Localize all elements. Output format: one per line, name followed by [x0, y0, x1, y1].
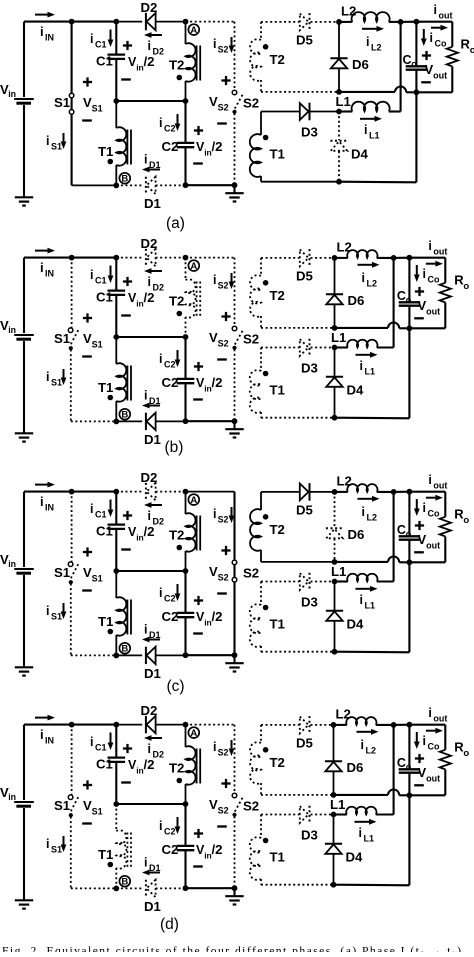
polarity dot T1 secondary [263, 838, 269, 844]
svg-text:L2: L2 [367, 279, 378, 289]
svg-text:i: i [213, 37, 216, 51]
polarity dot T2 secondary [263, 280, 269, 286]
inductor L2 [335, 257, 348, 259]
svg-text:i: i [144, 623, 147, 637]
svg-text:D2: D2 [153, 283, 165, 293]
wire top rail node A to S2 branch [186, 21, 235, 23]
svg-text:L2: L2 [371, 43, 382, 53]
svg-text:in: in [8, 792, 16, 802]
voltage source Vin (a) [23, 22, 25, 97]
wire bottom rail S1 to node B [71, 420, 117, 422]
circuit phase (a) [0, 0, 474, 232]
svg-text:o: o [406, 529, 412, 539]
node junction bottom B [113, 419, 119, 425]
wire top rail S1 node to C1 node [72, 257, 117, 259]
svg-text:D1: D1 [144, 196, 161, 211]
svg-text:S1: S1 [51, 378, 62, 388]
transformer T2 secondary winding [260, 22, 262, 40]
polarity dot T2 primary [177, 778, 183, 784]
wire D1 to C2 bottom [156, 184, 186, 186]
node junction Co top [414, 19, 420, 25]
svg-text:Fig. 2. Equivalent circuits: Fig. 2. Equivalent circuits of the four … [2, 945, 461, 953]
current arrow iCo [416, 732, 418, 742]
current arrow iL1 [355, 821, 370, 823]
inductor L2 [334, 724, 347, 726]
transformer T2 secondary winding [260, 492, 262, 510]
capacitor C1 [115, 22, 117, 54]
wire bottom rail S1 to node B [71, 887, 117, 889]
svg-text:T2: T2 [169, 58, 184, 73]
wire lower loop bottom rail [261, 884, 334, 886]
capacitor C2 [184, 101, 186, 142]
current arrow iL1 [360, 118, 375, 120]
diode D5 [300, 14, 309, 31]
svg-text:i: i [213, 273, 216, 287]
current arrow iCo [423, 29, 425, 39]
svg-text:i: i [428, 473, 431, 487]
svg-text:D2: D2 [141, 703, 158, 718]
diode D3 [300, 339, 309, 356]
diode D3 [300, 806, 309, 823]
wire top rail S1 node to C1 node [72, 21, 117, 23]
svg-text:C1: C1 [95, 510, 107, 520]
ground (left circuit) [233, 421, 235, 429]
ground (input) [15, 196, 33, 198]
diode D2 [145, 716, 147, 733]
wire D6 bottom to output ground with crossover hop [339, 91, 395, 93]
svg-text:D4: D4 [347, 383, 365, 398]
ground (left circuit) [233, 185, 235, 193]
node junction L1 input [331, 812, 337, 818]
capacitor Co [408, 258, 410, 302]
svg-text:C1: C1 [96, 524, 113, 539]
svg-text:i: i [366, 35, 369, 49]
circuit phase (d) [0, 703, 469, 933]
transformer T1 primary winding [115, 337, 117, 364]
transformer T1 secondary winding [260, 112, 262, 136]
current arrow iCo [416, 265, 418, 275]
wire bottom rail S1 to node B [71, 654, 117, 656]
inductor L1 [335, 346, 348, 348]
node junction top S1 [69, 19, 75, 25]
node junction top T2 [183, 722, 189, 728]
wire L2 to output top node [391, 255, 397, 261]
node junction D4 bottom [331, 882, 337, 888]
node junction bottom B [113, 183, 119, 189]
node junction D4 bottom [332, 649, 338, 655]
svg-text:C2: C2 [164, 827, 176, 837]
svg-text:o: o [463, 748, 469, 759]
wire L2 to output top node [391, 722, 397, 728]
svg-text:/2: /2 [212, 842, 223, 857]
svg-text:S1: S1 [92, 574, 103, 584]
wire output top to Ro [416, 21, 452, 23]
svg-text:T2: T2 [270, 755, 285, 770]
svg-text:C1: C1 [95, 276, 107, 286]
node A [188, 727, 199, 738]
diode D2 [145, 249, 147, 266]
wire mid rail [113, 334, 119, 340]
svg-text:T2: T2 [169, 528, 184, 543]
polarity dot T2 primary [177, 545, 183, 551]
svg-text:D2: D2 [153, 47, 165, 57]
svg-text:T1: T1 [98, 380, 113, 395]
capacitor Co [415, 22, 417, 66]
node junction L2 input [332, 255, 338, 261]
svg-text:out: out [439, 11, 453, 21]
capacitor C2 [184, 804, 186, 845]
current arrow iD2 [152, 737, 163, 739]
diode D6 [338, 22, 340, 58]
svg-text:D2: D2 [141, 236, 158, 251]
svg-text:i: i [213, 507, 216, 521]
node junction Co bottom [407, 325, 413, 331]
wire lower loop to output ground [335, 417, 410, 420]
current arrow iL1 [356, 354, 371, 356]
node junction D6 bottom [332, 325, 338, 331]
inductor L1 [335, 580, 348, 582]
svg-text:D1: D1 [144, 666, 161, 681]
voltage label Vin/2 on C2 [194, 832, 203, 834]
wire T2 secondary to D5 [261, 21, 300, 23]
svg-text:/2: /2 [212, 609, 223, 624]
node junction D6 bottom [336, 89, 342, 95]
vertical wire L1 to top rail [400, 22, 402, 112]
wire T1 secondary to D3 [261, 581, 300, 583]
wire top rail Vin to S1 node [24, 724, 72, 726]
svg-text:C1: C1 [95, 743, 107, 753]
svg-text:out: out [433, 481, 447, 491]
node junction top S1 [69, 722, 75, 728]
node junction L1 input [332, 345, 338, 351]
vertical wire output ground to lower loop [415, 92, 417, 182]
node junction top C1 [113, 19, 119, 25]
wire D3 to L1 node [311, 581, 335, 583]
wire bottom rail S1 to node B [72, 184, 117, 186]
wire bottom rail C2 to ground node [186, 420, 235, 422]
svg-text:S1: S1 [54, 331, 70, 346]
wire output bottom to Ro [409, 561, 445, 563]
svg-text:S2: S2 [218, 573, 229, 583]
voltage label VS2 with polarity [221, 315, 230, 317]
svg-text:Co: Co [428, 275, 440, 285]
diode D3 [300, 573, 309, 590]
capacitor C1 [115, 258, 117, 290]
svg-text:o: o [463, 281, 469, 292]
svg-text:L1: L1 [336, 94, 351, 109]
voltage label Vout with polarity [415, 290, 424, 292]
svg-text:S2: S2 [218, 339, 229, 349]
wire mid rail [113, 801, 119, 807]
svg-text:IN: IN [45, 503, 54, 513]
svg-text:C: C [397, 289, 406, 303]
node junction top T2 [183, 489, 189, 495]
resistor Ro [444, 492, 446, 517]
svg-text:i: i [148, 742, 151, 756]
svg-text:A: A [190, 25, 197, 36]
diode D5 [300, 717, 309, 734]
vertical wire output ground to lower loop [408, 795, 410, 885]
wire node B to D1 [116, 654, 142, 656]
svg-text:out: out [433, 71, 447, 81]
switch S1 (open) [71, 492, 73, 562]
svg-text:out: out [433, 247, 447, 257]
transformer T1 core [126, 600, 128, 635]
transformer T1 primary winding [115, 571, 117, 598]
svg-text:o: o [411, 59, 417, 69]
transformer T1 primary winding [115, 101, 117, 128]
svg-text:S1: S1 [92, 340, 103, 350]
voltage label Vout with polarity [415, 757, 424, 759]
svg-text:S2: S2 [218, 748, 229, 758]
node junction D4 bottom [336, 179, 342, 185]
node A [188, 494, 199, 505]
node junction top C1 [113, 722, 119, 728]
node junction L2 input [331, 722, 337, 728]
transformer T1 core [126, 130, 128, 165]
svg-text:i: i [46, 134, 49, 148]
svg-text:D5: D5 [296, 736, 313, 751]
svg-text:i: i [364, 123, 367, 137]
wire D6 bottom to output ground with crossover hop [335, 327, 389, 329]
svg-text:i: i [361, 738, 364, 752]
svg-text:D6: D6 [348, 527, 365, 542]
svg-text:i: i [428, 706, 431, 720]
svg-text:in: in [8, 325, 16, 335]
wire top rail Vin to S1 node [24, 21, 72, 23]
wire T2 secondary to D5 [261, 724, 300, 726]
wire upper loop bottom rail [261, 794, 334, 796]
svg-text:D2: D2 [153, 750, 165, 760]
wire D1 to C2 bottom [156, 654, 186, 656]
svg-text:out: out [426, 307, 440, 317]
switch S2 (open) [234, 258, 236, 327]
svg-text:D1: D1 [144, 899, 161, 914]
svg-text:i: i [159, 586, 162, 600]
voltage source Vin (b) [23, 258, 25, 333]
svg-text:i: i [213, 740, 216, 754]
diode D6 [334, 492, 336, 528]
ground (input) [15, 432, 33, 434]
node junction bottom S2 [232, 885, 238, 891]
ground (left circuit) [233, 655, 235, 663]
svg-text:i: i [148, 275, 151, 289]
wire node B to D1 [116, 887, 142, 889]
svg-text:D3: D3 [301, 828, 318, 843]
svg-text:C2: C2 [162, 375, 179, 390]
voltage label VS2 with polarity [221, 79, 230, 81]
svg-text:D5: D5 [296, 33, 313, 48]
circuit phase (c) [0, 470, 469, 695]
svg-text:i: i [359, 826, 362, 840]
current arrow iL2 [362, 28, 377, 30]
svg-text:i: i [159, 116, 162, 130]
wire D2 to node A [156, 21, 186, 23]
svg-text:D3: D3 [301, 361, 318, 376]
voltage label Vout with polarity [422, 54, 431, 56]
svg-text:/2: /2 [212, 375, 223, 390]
svg-text:B: B [121, 644, 128, 655]
voltage label Vin/2 on C1 [123, 44, 132, 46]
switch S2 (closed) [233, 492, 235, 560]
wire lower loop to output ground [334, 884, 410, 887]
svg-text:i: i [46, 837, 49, 851]
svg-text:L1: L1 [331, 330, 346, 345]
voltage source Vin (d) [23, 725, 25, 800]
switch S1 (closed) [71, 22, 73, 94]
current arrow iIN [35, 484, 48, 486]
wire output top to Ro [409, 724, 445, 726]
svg-text:B: B [121, 877, 128, 888]
voltage label VS1 with polarity [83, 317, 92, 319]
node junction bottom S2 [232, 182, 238, 188]
polarity dot T1 secondary [263, 605, 269, 611]
svg-text:C1: C1 [96, 54, 113, 69]
svg-text:i: i [362, 271, 365, 285]
diode D6 [333, 725, 335, 761]
svg-text:i: i [148, 509, 151, 523]
diode D1 [145, 177, 147, 194]
diode D2 [145, 13, 147, 30]
svg-text:(c): (c) [166, 678, 184, 695]
svg-text:T1: T1 [98, 847, 113, 862]
node junction bottom B [113, 653, 119, 659]
svg-text:Co: Co [428, 509, 440, 519]
svg-text:L2: L2 [337, 474, 352, 489]
svg-text:i: i [423, 734, 426, 748]
svg-text:L1: L1 [369, 131, 380, 141]
node junction L1 input [332, 579, 338, 585]
svg-text:S2: S2 [218, 806, 229, 816]
node B [119, 643, 130, 654]
svg-text:L2: L2 [367, 513, 378, 523]
resistor Ro [444, 258, 446, 283]
diode D5 [300, 250, 309, 267]
wire D3 to L1 node [311, 111, 340, 113]
svg-text:D2: D2 [153, 517, 165, 527]
svg-text:D4: D4 [347, 617, 365, 632]
wire D1 to C2 bottom [156, 887, 186, 889]
transformer T2 core [196, 282, 198, 317]
inductor L1 [339, 110, 352, 112]
svg-text:A: A [190, 728, 197, 739]
voltage label VS1 with polarity [83, 551, 92, 553]
diode D4 [334, 582, 336, 611]
svg-text:(a): (a) [166, 215, 185, 232]
transformer T1 secondary winding [260, 348, 262, 372]
node junction top T2 [183, 19, 189, 25]
wire lower loop bottom rail [261, 181, 339, 183]
wire lower loop to output ground [339, 181, 416, 184]
svg-text:D4: D4 [346, 850, 364, 865]
svg-text:i: i [40, 727, 44, 742]
polarity dot T1 primary [108, 159, 114, 165]
node junction L2 input [336, 19, 342, 25]
ground (input) [15, 899, 33, 901]
diode D6 [334, 258, 336, 294]
node junction Co bottom [407, 792, 413, 798]
svg-text:Co: Co [435, 39, 447, 49]
svg-text:i: i [159, 819, 162, 833]
inductor L2 [335, 491, 348, 493]
node B [119, 409, 130, 420]
wire top rail node A to S2 branch [186, 491, 235, 493]
current arrow iIN [35, 717, 48, 719]
svg-text:i: i [46, 370, 49, 384]
wire upper loop bottom rail [261, 91, 339, 93]
svg-text:T1: T1 [270, 147, 285, 162]
svg-text:i: i [46, 604, 49, 618]
transformer T2 primary winding [185, 22, 187, 44]
diode D3 [300, 103, 309, 120]
vertical wire L1 to top rail [393, 725, 395, 815]
wire output top to Ro [409, 491, 445, 493]
node junction D6 bottom [332, 559, 338, 565]
voltage label Vin/2 on C1 [123, 514, 132, 516]
current arrow iL2 [358, 498, 373, 500]
node junction Co top [407, 722, 413, 728]
capacitor C1 [115, 492, 117, 524]
voltage label VS1 with polarity [83, 784, 92, 786]
ground (input) [15, 666, 33, 668]
node junction top T2 [183, 255, 189, 261]
transformer T2 core [196, 516, 198, 551]
wire D5 to L2 node [311, 491, 335, 493]
transformer T2 core [196, 46, 198, 81]
voltage label Vin/2 on C2 [194, 365, 203, 367]
current arrow iL1 [356, 588, 371, 590]
node junction Co bottom [407, 559, 413, 565]
node junction bottom S2 [232, 418, 238, 424]
svg-text:S2: S2 [218, 45, 229, 55]
svg-text:i: i [90, 32, 93, 46]
svg-text:IN: IN [45, 736, 54, 746]
svg-text:D6: D6 [352, 57, 369, 72]
svg-text:in: in [8, 559, 16, 569]
svg-text:L1: L1 [330, 797, 345, 812]
capacitor Co [408, 725, 410, 769]
svg-text:C2: C2 [164, 124, 176, 134]
capacitor Co [408, 492, 410, 536]
node junction top S1 [69, 489, 75, 495]
svg-text:C: C [397, 756, 406, 770]
svg-text:i: i [423, 501, 426, 515]
vertical wire L1 to top rail [393, 258, 395, 348]
svg-text:T2: T2 [169, 761, 184, 776]
wire bottom rail C2 to ground node [186, 654, 235, 656]
svg-text:D5: D5 [296, 269, 313, 284]
node junction bottom C2 [183, 885, 189, 891]
voltage label VS2 with polarity [221, 549, 230, 551]
node B [119, 876, 130, 887]
svg-text:B: B [121, 410, 128, 421]
svg-text:D6: D6 [347, 760, 364, 775]
svg-text:C1: C1 [95, 40, 107, 50]
node B [119, 173, 130, 184]
polarity dot T2 secondary [263, 747, 269, 753]
svg-text:C2: C2 [162, 842, 179, 857]
svg-text:D2: D2 [141, 470, 158, 485]
transformer T1 secondary winding [260, 815, 262, 839]
node A [188, 260, 199, 271]
svg-text:i: i [434, 3, 437, 17]
svg-text:(d): (d) [160, 916, 179, 933]
svg-text:o: o [470, 45, 474, 56]
transformer T2 primary winding [185, 492, 187, 514]
transformer T1 core [126, 366, 128, 401]
svg-text:D1: D1 [144, 432, 161, 447]
svg-text:S2: S2 [218, 103, 229, 113]
